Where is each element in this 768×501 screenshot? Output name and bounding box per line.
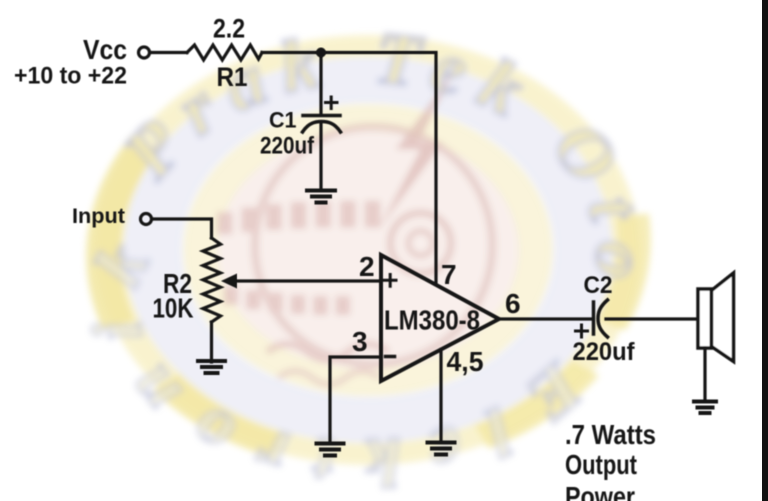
svg-text:10K: 10K: [153, 293, 194, 324]
svg-text:.7 Watts: .7 Watts: [565, 419, 656, 450]
svg-text:220uf: 220uf: [260, 133, 315, 160]
svg-text:Power: Power: [565, 481, 635, 501]
svg-text:C1: C1: [269, 108, 297, 133]
svg-text:220uf: 220uf: [573, 338, 636, 366]
svg-text:+10 to +22: +10 to +22: [14, 63, 127, 90]
svg-text:3: 3: [352, 326, 368, 357]
svg-text:6: 6: [505, 288, 521, 319]
svg-text:Output: Output: [565, 449, 637, 480]
svg-text:7: 7: [441, 259, 457, 290]
svg-text:Input: Input: [72, 205, 125, 228]
svg-text:LM380-8: LM380-8: [384, 305, 480, 336]
svg-text:4,5: 4,5: [447, 346, 484, 377]
svg-text:Vcc: Vcc: [83, 34, 127, 65]
svg-text:R1: R1: [217, 62, 248, 92]
svg-text:2.2: 2.2: [213, 14, 245, 44]
svg-text:2: 2: [359, 251, 375, 282]
svg-text:C2: C2: [584, 272, 613, 299]
